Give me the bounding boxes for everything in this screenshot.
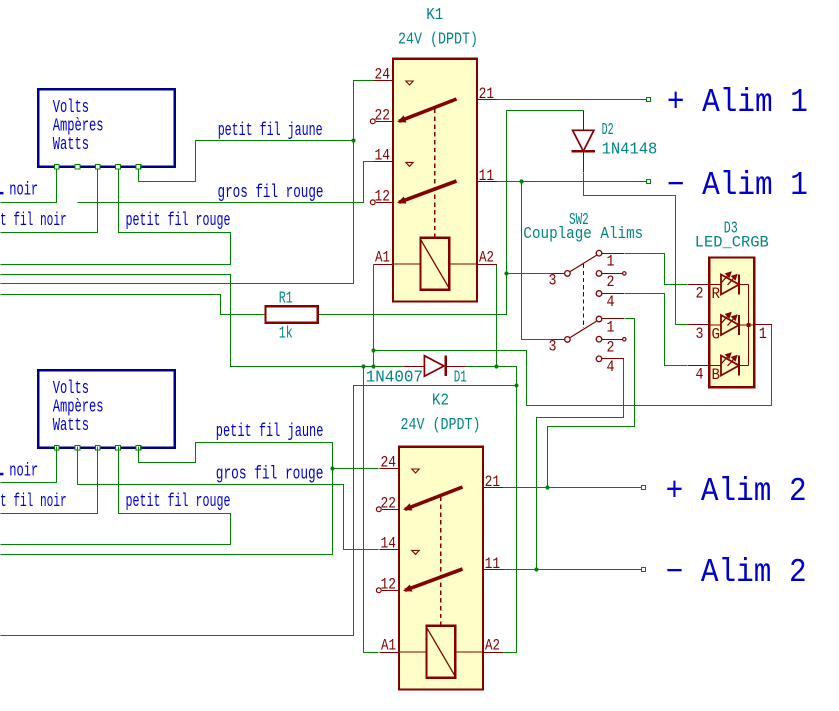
open end +Alim2: [642, 486, 646, 490]
svg-text:1k: 1k: [279, 325, 293, 344]
svg-text:3: 3: [549, 337, 557, 355]
wire K1 pin11 to -Alim1: [497, 181, 649, 183]
meter M1 pin 2: [75, 165, 80, 170]
svg-text:3: 3: [696, 325, 704, 343]
relay K2 pin 12: [382, 590, 399, 592]
svg-text:petit fil rouge: petit fil rouge: [126, 211, 231, 231]
svg-text:A1: A1: [375, 249, 390, 267]
switch SW2 section1 contact 1: [596, 250, 602, 256]
meter M2 pin 2: [75, 445, 80, 450]
svg-text:noir: noir: [9, 461, 38, 481]
resistor R1 body: [266, 306, 318, 322]
svg-text:D2: D2: [602, 121, 614, 140]
svg-text:− Alim 1: − Alim 1: [667, 167, 808, 204]
svg-text:gros fil rouge: gros fil rouge: [216, 465, 324, 485]
svg-text:14: 14: [381, 535, 397, 553]
svg-text:A2: A2: [485, 637, 500, 655]
junction -Alim1: [519, 179, 523, 183]
wire SW2 s1 contact1 to D3 pin2: [625, 254, 688, 285]
wire D2 cathode to D3 pin3: [584, 173, 689, 325]
junction K2 A2 branch: [514, 383, 518, 387]
svg-text:G: G: [712, 326, 721, 344]
junction jaune2: [330, 466, 334, 470]
svg-text:A2: A2: [479, 249, 494, 267]
wire bus line to D1 anode: [1, 275, 404, 367]
svg-text:2: 2: [607, 273, 615, 291]
wire to R1 left: [1, 295, 266, 315]
relay K2 coil connection A1-A2: [399, 651, 427, 653]
relay K1 pin 14: [373, 161, 393, 163]
wire petit fil jaune M2 pin5 to K2 pin24: [1, 443, 333, 555]
svg-text:gros fil rouge: gros fil rouge: [218, 183, 324, 203]
svg-text:1N4007: 1N4007: [366, 368, 423, 387]
svg-text:+ Alim 1: + Alim 1: [667, 84, 808, 121]
wire fil noir M2 pin1: [1, 447, 57, 483]
svg-text:R1: R1: [279, 289, 293, 308]
wire K2 pin11 to -Alim2: [503, 569, 644, 571]
label fil noir (clipped) bottom: [0, 473, 3, 476]
switch SW2 section2 contact 1: [596, 316, 602, 322]
switch SW2 section1 lever: [570, 255, 597, 271]
svg-text:24V (DPDT): 24V (DPDT): [398, 31, 478, 50]
meter module M2 box: [38, 370, 174, 447]
svg-text:LED_CRGB: LED_CRGB: [695, 234, 769, 252]
relay K1 top lever: [399, 99, 457, 121]
wire petit fil noir M2 pin3: [1, 447, 98, 514]
wire SW2 s2 contact1 to +Alim2 node: [548, 319, 635, 488]
svg-text:noir: noir: [9, 181, 38, 201]
meter M2 pin 1: [55, 445, 60, 450]
svg-text:t fil noir: t fil noir: [0, 492, 67, 512]
svg-text:22: 22: [381, 494, 397, 512]
junction K1 A2 on D1 wire: [494, 364, 498, 368]
LED module D3 pin 1: [749, 324, 755, 326]
svg-text:1: 1: [607, 253, 615, 271]
relay K1 pin 12: [376, 202, 393, 204]
svg-text:Watts: Watts: [53, 416, 89, 436]
LED module D3 pin 3: [688, 324, 709, 326]
relay K2 contact mark pin 14: [412, 550, 419, 554]
relay K2 top lever: [405, 487, 463, 509]
junction -Alim2: [534, 567, 538, 571]
wire R1 right to SW2 pole1 node and D2 anode: [318, 111, 584, 315]
svg-text:Volts: Volts: [53, 379, 89, 399]
svg-text:− Alim 2: − Alim 2: [666, 554, 807, 591]
meter M2 pin 4: [116, 445, 121, 450]
svg-text:Couplage Alims: Couplage Alims: [523, 225, 643, 244]
svg-text:3: 3: [549, 271, 557, 289]
LED module D3 common cathode bus: [748, 285, 750, 366]
wire SW2 s1 contact4 to D3 pin4: [625, 294, 688, 366]
relay K1 mechanical link: [434, 109, 436, 238]
meter M2 pin 3: [95, 445, 100, 450]
junction jaune1: [351, 138, 355, 142]
relay K1 bottom lever: [399, 181, 457, 202]
svg-text:D1: D1: [454, 368, 467, 387]
junction +Alim2: [545, 485, 549, 489]
LED element B: [709, 365, 721, 367]
svg-text:24: 24: [381, 453, 397, 471]
open end +Alim1: [647, 98, 651, 102]
LED element G: [709, 324, 721, 326]
relay K1 pin 22: [376, 121, 393, 123]
wire K1 pin21 to +Alim1: [497, 99, 649, 101]
svg-text:14: 14: [375, 147, 391, 165]
wire gros fil rouge M2 pin2 to K2 pin14: [78, 447, 379, 550]
wire -Alim1 node to SW2 pole2: [522, 182, 554, 340]
relay K1 pin 24: [373, 80, 393, 82]
diode D2 pins: [582, 110, 584, 130]
svg-text:1: 1: [607, 318, 615, 336]
wire SW2 pole1 stub: [507, 273, 554, 275]
switch SW2 section2 lever: [570, 321, 597, 338]
svg-text:12: 12: [381, 575, 397, 593]
relay K1 pin A1: [373, 264, 393, 266]
svg-text:petit fil jaune: petit fil jaune: [216, 422, 324, 442]
relay K1 body: [393, 59, 477, 302]
wire SW2 s2 contact4 to -Alim2 node: [537, 359, 624, 570]
svg-text:A1: A1: [381, 637, 396, 655]
LED element B emission arrows: [722, 353, 732, 364]
svg-text:Watts: Watts: [53, 135, 89, 155]
relay K1 pin 21: [477, 99, 497, 101]
wire petit fil jaune M1 pin5 to node: [139, 141, 354, 182]
switch SW2 section2 pole: [565, 337, 571, 343]
LED element G emission arrows: [722, 313, 732, 324]
svg-text:petit fil rouge: petit fil rouge: [126, 492, 231, 512]
svg-text:Ampères: Ampères: [53, 398, 104, 418]
svg-text:2: 2: [696, 285, 704, 303]
meter M2 pin 5: [136, 445, 141, 450]
svg-text:K2: K2: [432, 392, 449, 411]
label fil noir (clipped) top: [0, 192, 3, 195]
wire K1 A2 down to D1 cathode node: [496, 265, 498, 367]
LED module D3 pin 4: [688, 365, 709, 367]
svg-text:4: 4: [696, 366, 704, 384]
wire petit fil rouge M1 pin4: [1, 169, 231, 265]
wire K1 A1 down: [373, 265, 375, 367]
wire node to lower left rail: [1, 386, 517, 636]
relay K2 pin 21: [483, 487, 503, 489]
svg-text:21: 21: [485, 473, 501, 491]
meter M1 pin 4: [116, 165, 121, 170]
svg-text:24V (DPDT): 24V (DPDT): [401, 416, 481, 435]
relay K2 mechanical link: [440, 497, 442, 626]
meter M1 pin 3: [95, 165, 100, 170]
wire K2 pin21 to +Alim2: [503, 487, 644, 489]
svg-text:R: R: [712, 285, 721, 303]
svg-text:22: 22: [375, 106, 391, 124]
relay K1 pin A2: [477, 264, 497, 266]
svg-text:1: 1: [759, 325, 767, 343]
switch SW2 section1 contact 2: [596, 271, 602, 277]
meter module M1 box: [38, 89, 174, 166]
switch SW2 section1 pole: [565, 271, 571, 277]
junction K2 A1 branch: [361, 364, 365, 368]
svg-text:11: 11: [479, 167, 495, 185]
relay K2 pin A2: [483, 652, 503, 654]
LED module D3 body: [709, 258, 754, 388]
wire D1 cathode to K2 A2: [466, 367, 517, 653]
svg-text:Volts: Volts: [53, 98, 89, 118]
relay K2 body: [399, 447, 483, 690]
svg-text:24: 24: [375, 65, 391, 83]
LED element R: [709, 284, 721, 286]
wire fil noir M1 pin1: [1, 169, 57, 203]
relay K1 pin 11: [477, 181, 497, 183]
LED element R emission arrows: [722, 272, 732, 283]
relay K2 bottom lever: [405, 569, 463, 590]
wire D1 node to K2 A1: [364, 367, 379, 653]
open end -Alim2: [642, 568, 646, 572]
meter M1 pin 5: [136, 165, 141, 170]
LED module D3 pin 2: [688, 284, 709, 286]
svg-text:t fil noir: t fil noir: [0, 211, 67, 231]
switch SW2 mechanical link: [582, 264, 584, 328]
relay K1 contact mark pin 14: [406, 162, 413, 166]
relay K2 pin 24: [379, 468, 399, 470]
wire jaune net to K1 pin24: [1, 81, 374, 284]
svg-text:K1: K1: [426, 6, 443, 25]
svg-text:2: 2: [607, 339, 615, 357]
svg-text:4: 4: [607, 358, 615, 376]
junction K1 A1 on D1 wire: [371, 364, 375, 368]
junction K1 A1 branch: [371, 348, 375, 352]
meter M1 pin 1: [55, 165, 60, 170]
svg-text:petit fil jaune: petit fil jaune: [218, 121, 323, 141]
wire gros fil rouge M1 pin2 to K1 pin14: [78, 162, 374, 203]
svg-text:B: B: [712, 366, 721, 384]
svg-text:Ampères: Ampères: [53, 117, 104, 137]
relay K2 pin 14: [379, 549, 399, 551]
relay K2 pin A1: [379, 652, 399, 654]
svg-text:+ Alim 2: + Alim 2: [666, 473, 807, 510]
diode D1 body: [424, 356, 444, 377]
diode D1 pins: [404, 366, 425, 368]
wire jaune2 stub to K2 pin24: [333, 468, 379, 470]
open end -Alim1: [647, 180, 651, 184]
wire petit fil rouge M2 pin4: [1, 447, 231, 545]
wire K1 A1 to D3 pin1: [374, 325, 772, 406]
relay K2 pin 11: [483, 569, 503, 571]
switch SW2 section1 contact 4: [596, 291, 602, 297]
svg-text:4: 4: [607, 293, 615, 311]
svg-text:12: 12: [375, 187, 391, 205]
relay K2 contact mark pin 24: [412, 469, 419, 473]
svg-text:21: 21: [479, 85, 495, 103]
wire petit fil noir M1 pin3: [1, 169, 98, 233]
relay K2 coil: [427, 626, 456, 678]
junction SW2 pole1 node: [504, 271, 508, 275]
relay K1 coil: [421, 238, 450, 290]
switch SW2 section2 contact 2: [596, 336, 602, 342]
switch SW2 section2 contact 4: [596, 356, 602, 362]
relay K2 pin 22: [382, 509, 399, 511]
relay K1 contact mark pin 24: [406, 81, 413, 85]
relay K1 coil connection A1-A2: [393, 263, 421, 265]
svg-text:1N4148: 1N4148: [602, 140, 658, 159]
svg-text:11: 11: [485, 555, 501, 573]
diode D2 body: [573, 130, 594, 151]
